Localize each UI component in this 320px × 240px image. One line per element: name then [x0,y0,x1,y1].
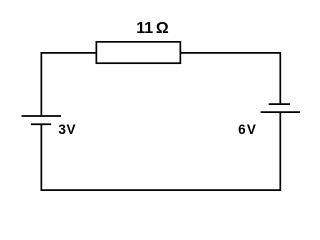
battery B2 long plate (right, positive) [261,111,300,113]
svg-text:V: V [247,122,256,137]
svg-text:6: 6 [238,122,246,137]
wire: resistor right side to top-right corner, down to right battery short plate [180,53,280,104]
svg-text:3: 3 [58,122,66,137]
battery B1 long plate (left, positive) [22,115,62,117]
svg-text:Ω: Ω [156,20,169,37]
battery B2 short plate (right, negative) [269,103,290,105]
svg-text:11: 11 [136,20,153,37]
wire: right battery long plate down to bottom-right corner, across bottom, up to left battery short plate [41,112,280,190]
wire: left battery top plate up to top-left corner, across to resistor [41,53,96,116]
resistor R (11 ohm box) [96,42,180,63]
battery B1 short plate (left, negative) [31,123,51,125]
svg-text:V: V [67,122,76,137]
